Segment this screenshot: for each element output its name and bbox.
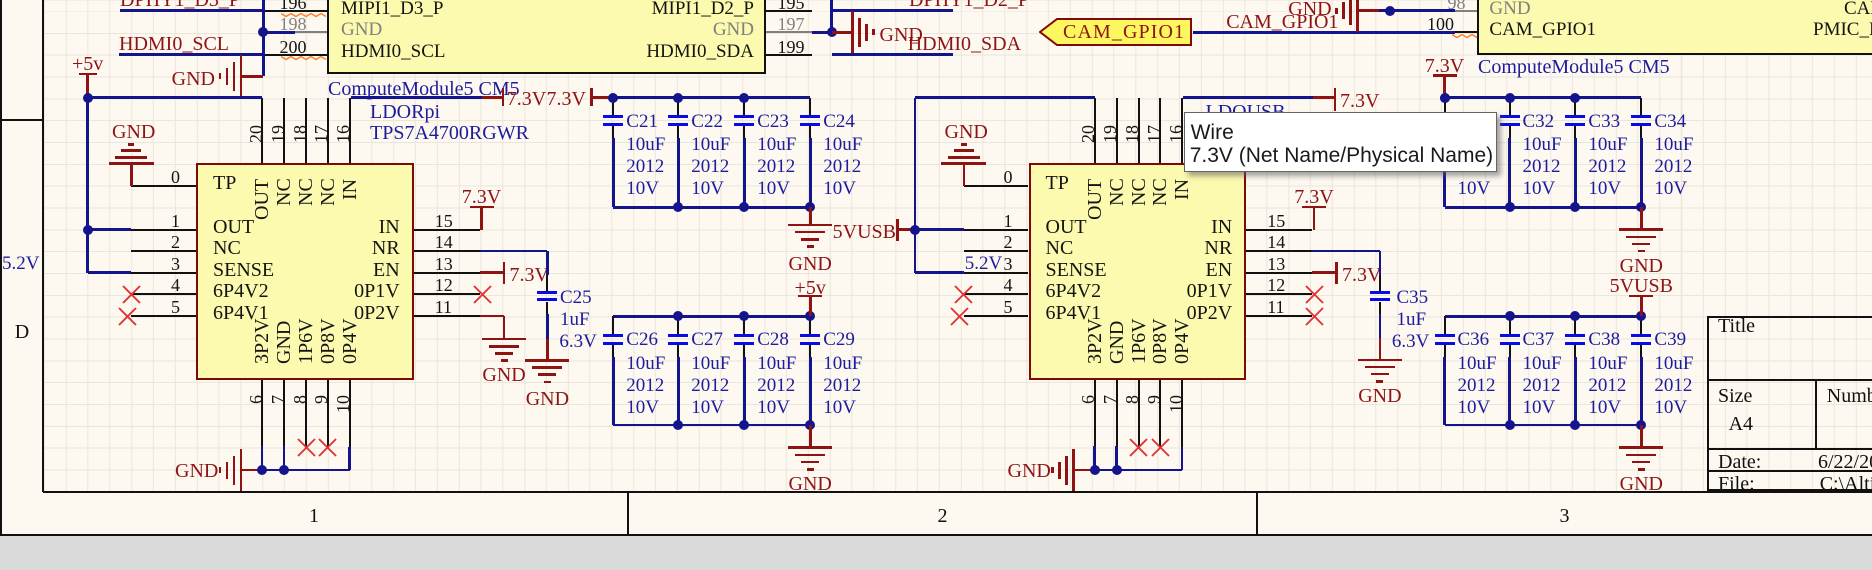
U_LDORpi pin 20 lead (top) [261, 98, 263, 162]
sheet zone divider 1/2 [627, 492, 629, 536]
title block frame [1707, 316, 1872, 492]
capacitor C23 [743, 98, 745, 115]
U_LDORpi no-connect X pin 12 [473, 285, 492, 304]
value label 10V C32 [1523, 179, 1556, 199]
value label 10V C37 [1523, 398, 1556, 418]
title block text Number [1827, 386, 1872, 407]
pin name CAM (right, clipped) [1844, 0, 1872, 18]
value label C29 [823, 330, 855, 350]
U_LDOUSB pin 16 lead (top) [1181, 98, 1183, 162]
U_LDORpi ground text GND [112, 122, 155, 143]
U_LDORpi pin number 15 [435, 212, 453, 231]
value label 10uF C24 [823, 135, 862, 155]
U_LDOUSB pin number 2 [613, 233, 1013, 252]
net label 5.2V (left margin) [2, 254, 39, 274]
U_LDOUSB pin number 3 [613, 255, 1013, 274]
value label 10uF C36 [1458, 354, 1497, 374]
designator text ComputeModule5 CM5 [328, 79, 520, 100]
U_LDORpi pin number 20 [247, 125, 265, 143]
junction dot bottom rail [1570, 202, 1580, 212]
value label C27 [691, 330, 723, 350]
power text 7.3V [507, 89, 546, 110]
wire 5VUSB to LDO2 pin1 [915, 228, 964, 231]
U_LDOUSB pin 11 lead (right) [1246, 315, 1312, 317]
value label 10V C22 [691, 179, 724, 199]
capacitor C22 [677, 98, 679, 115]
junction dot bottom rail [1570, 420, 1580, 430]
U_LDORpi power port 7.3V on pin 13 (bar) [480, 271, 504, 274]
tooltip Wire / 7.3V [1184, 112, 1497, 172]
U_LDOUSB pin 13 lead (right) [1246, 272, 1312, 274]
sheet border left outer line [0, 0, 2, 536]
sheet zone letter D [0, 322, 222, 343]
value label C26 [626, 330, 658, 350]
junction dot top rail [673, 93, 683, 103]
value label 10V C23 [757, 179, 790, 199]
U_LDORpi pin name NC (top) [296, 179, 316, 207]
junction dot pin 98 net [1385, 6, 1395, 16]
U_LDOUSB pin name 0P1V [832, 281, 1232, 302]
U_LDORpi pin number 12 [435, 276, 453, 295]
ground text GND [610, 254, 1010, 275]
power port 7.3V (LDO2 pin16 wire) bar [1313, 96, 1335, 99]
ground GND (sideways) right of CM5 pin197 [832, 31, 853, 34]
value label 10uF C32 [1523, 135, 1562, 155]
title block text Title [1718, 316, 1755, 337]
value label 6.3V [559, 332, 596, 352]
junction dot top rail [739, 93, 749, 103]
ground text GND [347, 389, 747, 410]
junction dot 5VUSB [910, 225, 920, 235]
designator text LDOUSB [1206, 102, 1286, 123]
U_LDORpi ground text GND [175, 461, 218, 482]
U_LDOUSB pin name EN [832, 260, 1232, 281]
U_LDOUSB pin name NC [1046, 238, 1074, 259]
designator text LDORpi [370, 102, 440, 123]
U_LDOUSB pin 7 lead (bottom) [1116, 380, 1118, 448]
designator text ComputeModule5 CM5 (right) [1478, 57, 1670, 78]
U_LDOUSB ground (sideways) at bottom pins [1072, 449, 1075, 491]
wire net DPHY1_D3_P [120, 9, 262, 12]
capacitor C27 [677, 316, 679, 333]
U_LDOUSB pin 19 lead (top) [1116, 98, 1118, 162]
value label 10V C38 [1588, 398, 1621, 418]
U_LDORpi pin name EN [0, 260, 400, 281]
compile-warning squiggle pin 100 [1452, 34, 1482, 39]
U_LDORpi pin name 0P8V (bottom) [318, 318, 338, 364]
status bar (gray strip) [0, 536, 1872, 570]
U_LDORpi pin 9 lead (bottom) [327, 380, 329, 448]
value label C23 [757, 112, 789, 132]
U_LDORpi wire pin6 to ground [261, 446, 264, 471]
ground text GND [1441, 256, 1841, 277]
U_LDOUSB pin number 19 [1101, 125, 1119, 143]
pin number 195 [778, 0, 805, 13]
U_LDORpi pin number 19 [269, 125, 287, 143]
U_LDORpi pin number 9 [312, 395, 330, 404]
U_LDORpi wire ground rail bottom [262, 469, 350, 472]
value label 2012 C37 [1523, 376, 1561, 396]
value label C31 [1458, 112, 1490, 132]
U_LDOUSB pin name OUT (top) [1085, 179, 1105, 220]
ground below C25 (earth) [546, 339, 549, 360]
U_LDOUSB pin 9 lead (bottom) [1159, 380, 1161, 448]
pin 196 lead [262, 10, 327, 12]
U_LDORpi pin number 17 [312, 125, 330, 143]
pin number 100 [1054, 15, 1454, 34]
capacitor C26 [612, 316, 614, 333]
capacitor C38 [1574, 316, 1576, 333]
value label 2012 C26 [626, 376, 664, 396]
title block column divider (Size/Number) [1815, 380, 1817, 449]
U_LDORpi power text 7.3V [510, 265, 549, 286]
U_LDORpi junction dot pin6 [257, 465, 267, 475]
value label C38 [1588, 330, 1620, 350]
pin name MIPI1_D2_P [354, 0, 754, 18]
U_LDOUSB ground text GND [1008, 461, 1051, 482]
U_LDORpi no-connect X pin 9 [318, 438, 337, 457]
wire cap-bank bottom rail [1445, 206, 1642, 209]
port CAM_GPIO1 [1039, 18, 1193, 47]
value label 10uF C28 [757, 354, 796, 374]
U_LDOUSB no-connect X pin 11 [1305, 307, 1324, 326]
wire +5v to pin1 [88, 228, 132, 231]
capacitor C36 [1444, 316, 1446, 333]
capacitor C32 [1509, 98, 1511, 115]
value label 2012 C39 [1654, 376, 1692, 396]
wire net CAM_GPIO1 to CM5 right [1193, 31, 1456, 34]
component CM5 ComputeModule5 (left) body [327, 0, 766, 74]
U_LDOUSB pin name NR [832, 238, 1232, 259]
value label 10uF C21 [626, 135, 665, 155]
tooltip text Wire [1191, 122, 1234, 144]
value label 10uF C39 [1654, 354, 1693, 374]
U_LDORpi pin name 3P2V (bottom) [252, 318, 272, 364]
U_LDORpi pin name SENSE [213, 260, 274, 281]
value label C25 [560, 288, 592, 308]
net label HDMI0_SDA [908, 34, 1021, 55]
U_LDOUSB ground above pin 0 (earth) [941, 162, 986, 165]
U_LDOUSB pin number 8 [1123, 395, 1141, 404]
U_LDORpi pin name 0P2V [0, 303, 400, 324]
U_LDOUSB pin name TP [1046, 173, 1069, 194]
ground text GND [1441, 474, 1841, 495]
U_LDORpi pin 5 lead (left) [131, 315, 196, 317]
U_LDOUSB no-connect X pin 4 [954, 285, 973, 304]
value label 2012 C38 [1588, 376, 1626, 396]
U_LDORpi wire pin 16 to 7.3V [351, 96, 483, 99]
wire 5VUSB rail vertical [914, 98, 917, 273]
junction dot top rail [1570, 311, 1580, 321]
value label 10uF C27 [691, 354, 730, 374]
junction dot top rail [1505, 311, 1515, 321]
junction dot bottom rail [1636, 202, 1646, 212]
wire cap-bank top rail [613, 315, 810, 318]
value label 2012 C36 [1458, 376, 1496, 396]
power port +5v above C29 [610, 278, 1010, 299]
title block row divider (Size/Date) [1707, 448, 1872, 450]
U_LDOUSB pin 17 lead (top) [1159, 98, 1161, 162]
pin name CAM_GPIO1 [1489, 20, 1596, 40]
capacitor C29 [809, 316, 811, 333]
U_LDORpi junction dot pin7 [279, 465, 289, 475]
value label 2012 C27 [691, 376, 729, 396]
value label 10uF C22 [691, 135, 730, 155]
U_LDORpi pin name GND (bottom) [274, 321, 294, 364]
U_LDORpi pin number 5 [0, 298, 180, 317]
U_LDORpi pin name 6P4V1 [213, 303, 269, 324]
junction dot bottom rail [673, 420, 683, 430]
wire vertical GND drop from pin 198 [262, 0, 265, 76]
U_LDOUSB wire pin 16 to 7.3V [1183, 96, 1313, 99]
value label C34 [1654, 112, 1686, 132]
U_LDOUSB pin number 14 [1267, 233, 1285, 252]
U_LDOUSB pin number 13 [1267, 255, 1285, 274]
U_LDORpi pin number 6 [247, 395, 265, 404]
U_LDOUSB pin name 3P2V (bottom) [1085, 318, 1105, 364]
U_LDORpi pin 18 lead (top) [305, 98, 307, 162]
U_LDORpi pin name OUT [213, 217, 254, 238]
junction dot bottom rail [1636, 420, 1646, 430]
U_LDOUSB pin name OUT [1046, 217, 1087, 238]
U_LDORpi pin name NC (top) [274, 179, 294, 207]
value label C39 [1654, 330, 1686, 350]
junction dot 7.3V/C31 [1440, 93, 1450, 103]
U_LDOUSB wire pin7 to ground [1115, 446, 1118, 471]
ground below C35 (earth) [1379, 338, 1382, 360]
U_LDORpi pin number 0 [0, 168, 180, 187]
value label 10V C26 [626, 398, 659, 418]
U_LDORpi pin number 18 [291, 125, 309, 143]
U_LDOUSB no-connect X pin 8 [1129, 438, 1148, 457]
pin number 199 [778, 38, 805, 57]
pin name PMIC_EN (right, clipped) [1813, 20, 1872, 40]
sheet zone number 3 [1365, 506, 1765, 527]
U_LDOUSB pin number 16 [1167, 125, 1185, 143]
power text 7.3V [1340, 91, 1379, 112]
U_LDOUSB pin name 0P4V (bottom) [1172, 318, 1192, 364]
pin name HDMI0_SCL [341, 42, 446, 62]
op-amp/regulator U_LDOUSB body TPS7A4700RGWR [1029, 163, 1247, 380]
junction dot bottom rail [1505, 420, 1515, 430]
U_LDORpi pin name 0P1V [0, 281, 400, 302]
U_LDOUSB pin name SENSE [1046, 260, 1107, 281]
U_LDORpi pin number 1 [0, 212, 180, 231]
wire cap-bank top rail [1445, 315, 1642, 318]
U_LDORpi pin 15 lead (right) [414, 229, 480, 231]
U_LDORpi pin number 13 [435, 255, 453, 274]
U_LDOUSB pin number 4 [613, 276, 1013, 295]
pin 195 lead [766, 10, 812, 12]
ground text GND [304, 365, 704, 386]
U_LDOUSB pin number 9 [1145, 395, 1163, 404]
U_LDOUSB pin number 20 [1079, 125, 1097, 143]
U_LDORpi pin name 1P6V (bottom) [296, 318, 316, 364]
value label 10uF C38 [1588, 354, 1627, 374]
capacitor C24 [809, 98, 811, 115]
title block row divider (Date/File) [1707, 470, 1872, 472]
U_LDOUSB pin number 5 [613, 298, 1013, 317]
capacitor C33 [1574, 98, 1576, 115]
U_LDOUSB junction dot pin6 [1090, 465, 1100, 475]
pin number 98 [1066, 0, 1466, 13]
U_LDOUSB pin number 7 [1101, 395, 1119, 404]
wire +5v rail vertical [86, 98, 89, 273]
U_LDORpi pin 17 lead (top) [327, 98, 329, 162]
capacitor C25 [546, 275, 548, 292]
value label 10V C28 [757, 398, 790, 418]
wire cap-bank bottom rail [613, 206, 810, 209]
U_LDOUSB pin 1 lead (left) [964, 229, 1029, 231]
value label C24 [823, 112, 855, 132]
ground below C34 (earth) [1640, 207, 1643, 229]
U_LDORpi pin name 6P4V2 [213, 281, 269, 302]
junction dot bottom rail [805, 420, 815, 430]
U_LDOUSB pin name 0P8V (bottom) [1150, 318, 1170, 364]
ground text GND [1288, 0, 1331, 20]
U_LDORpi wire pin10 drop [348, 447, 351, 470]
U_LDOUSB pin 6 lead (bottom) [1094, 380, 1096, 448]
value label 2012 C33 [1588, 157, 1626, 177]
U_LDORpi pin name NC [213, 238, 241, 259]
value label 10V C29 [823, 398, 856, 418]
U_LDOUSB pin name IN [832, 217, 1232, 238]
pin 200 lead [262, 54, 327, 56]
ground below C24 (earth) [809, 207, 812, 225]
ground GND (sideways) under CM5 left [240, 55, 243, 97]
U_LDOUSB no-connect X pin 12 [1305, 285, 1324, 304]
title block row divider (Title/Size) [1707, 379, 1872, 381]
junction dot bottom rail [739, 420, 749, 430]
U_LDOUSB pin name 1P6V (bottom) [1129, 318, 1149, 364]
U_LDOUSB pin name 6P4V1 [1046, 303, 1102, 324]
U_LDORpi pin 2 lead (left) [131, 250, 196, 252]
U_LDORpi pin name IN [0, 217, 400, 238]
U_LDORpi pin 10 lead (bottom) [349, 380, 351, 448]
U_LDORpi power port 7.3V on pin 15 [480, 207, 483, 230]
title block text File: [1718, 474, 1755, 495]
junction dot top rail [739, 311, 749, 321]
capacitor C21 [612, 98, 614, 115]
title block text A4 [1729, 414, 1753, 435]
U_LDORpi pin 12 lead (right) [414, 293, 480, 295]
U_LDOUSB pin number 11 [1267, 298, 1284, 317]
U_LDOUSB pin 4 lead (left) [964, 293, 1029, 295]
value label 10uF C29 [823, 354, 862, 374]
sheet border bottom outer line [0, 534, 1872, 536]
junction dot top rail [608, 93, 618, 103]
ground below bank C36-C39 (earth) [1640, 425, 1643, 448]
value label 10V C34 [1654, 179, 1687, 199]
value label 10V C39 [1654, 398, 1687, 418]
U_LDOUSB power text 7.3V [1114, 187, 1514, 208]
sheet zone divider 2/3 [1256, 492, 1258, 536]
junction dot bottom rail [805, 202, 815, 212]
U_LDOUSB no-connect X pin 5 [950, 307, 969, 326]
U_LDOUSB pin number 12 [1267, 276, 1285, 295]
value label 2012 C28 [757, 376, 795, 396]
compile-warning squiggle pin 196 [281, 13, 327, 18]
wire vertical from pin 197 junction upward [830, 0, 833, 32]
pin name GND (gray) [341, 20, 382, 40]
pin 198 lead (GND) [295, 31, 327, 33]
pin name GND (gray) [1489, 0, 1530, 18]
net label HDMI0_SCL [119, 34, 229, 55]
U_LDOUSB pin 8 lead (bottom) [1138, 380, 1140, 448]
U_LDOUSB power port 7.3V on pin 15 [1313, 207, 1316, 230]
ground below bank C26-C29 (earth) [809, 425, 812, 448]
power text 5VUSB above C39 [1441, 276, 1841, 297]
pin number 196 [0, 0, 307, 13]
junction dot top rail [1636, 311, 1646, 321]
value label 1uF [1397, 310, 1427, 330]
sheet border bottom inner line [43, 491, 1872, 493]
U_LDOUSB pin 3 lead (left) [964, 272, 1029, 274]
ground text GND [610, 474, 1010, 495]
power port 7.3V (inline, right) text [547, 89, 586, 110]
ground on pin 11 (earth) [480, 315, 504, 318]
value label 2012 C32 [1523, 157, 1561, 177]
U_LDOUSB pin name 0P2V [832, 303, 1232, 324]
value label C21 [626, 112, 658, 132]
U_LDOUSB wire pin6 to ground [1093, 446, 1096, 471]
value label 10uF C37 [1523, 354, 1562, 374]
value label 2012 C23 [757, 157, 795, 177]
sheet border left inner line [42, 0, 44, 492]
power port 7.3V above C31 [1245, 56, 1645, 77]
U_LDOUSB pin name NC (top) [1150, 179, 1170, 207]
value label 10V C27 [691, 398, 724, 418]
U_LDORpi pin 13 lead (right) [414, 272, 480, 274]
capacitor C39 [1640, 316, 1642, 333]
tooltip text 7.3V (Net Name/Physical Name) [1190, 145, 1493, 167]
capacitor C37 [1509, 316, 1511, 333]
pin number 197 [778, 15, 805, 34]
component ComputeModule5 CM5 (right) body [1477, 0, 1872, 55]
U_LDORpi pin number 10 [334, 395, 352, 413]
port text CAM_GPIO1 [1063, 22, 1185, 43]
capacitor C31 [1444, 98, 1446, 115]
U_LDOUSB wire pin 14 (NR) to bypass cap [1312, 250, 1380, 253]
U_LDOUSB pin name NC (top) [1129, 179, 1149, 207]
U_LDOUSB pin number 1 [613, 212, 1013, 231]
value label 10uF C23 [757, 135, 796, 155]
U_LDORpi no-connect X pin 4 [122, 285, 141, 304]
value label C35 [1397, 288, 1429, 308]
capacitor C35 [1379, 275, 1381, 292]
U_LDORpi ground above pin 0 (earth) [109, 162, 154, 165]
U_LDOUSB pin number 0 [613, 168, 1013, 187]
U_LDOUSB pin name GND (bottom) [1107, 321, 1127, 364]
net label CAM_GPIO1 [1226, 12, 1338, 33]
ground text GND [1180, 386, 1580, 407]
pin name MIPI1_D3_P [341, 0, 443, 18]
value label C37 [1523, 330, 1555, 350]
ground text GND [0, 69, 215, 90]
op-amp/regulator U_LDORpi body TPS7A4700RGWR [196, 163, 414, 380]
U_LDORpi pin name NC (top) [318, 179, 338, 207]
value label 10V C36 [1458, 398, 1491, 418]
wire +5v to pin3 (SENSE) [88, 271, 132, 274]
value label C33 [1588, 112, 1620, 132]
value label 10V C21 [626, 179, 659, 199]
U_LDORpi pin 3 lead (left) [131, 272, 196, 274]
wire cap-bank bottom rail [613, 424, 810, 427]
value label C32 [1523, 112, 1555, 132]
U_LDOUSB no-connect X pin 9 [1151, 438, 1170, 457]
U_LDOUSB junction dot pin7 [1112, 465, 1122, 475]
U_LDOUSB pin 20 lead (top) [1094, 98, 1096, 162]
